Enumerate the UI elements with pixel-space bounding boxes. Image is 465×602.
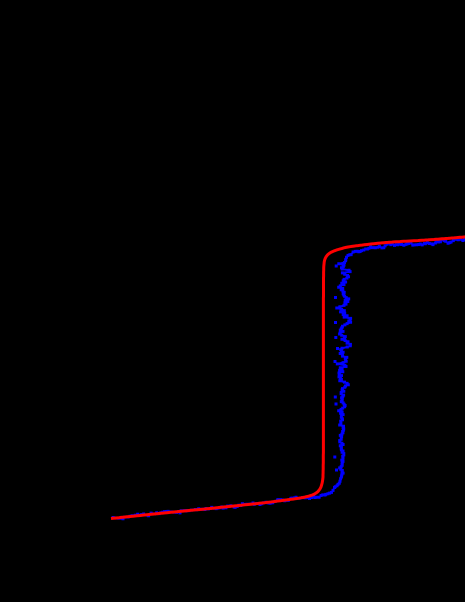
blue data point square markers	[112, 237, 465, 520]
red fitted titration curve	[111, 237, 465, 519]
blue outlier data points	[333, 265, 339, 472]
blue experimental data connecting line	[113, 239, 465, 519]
